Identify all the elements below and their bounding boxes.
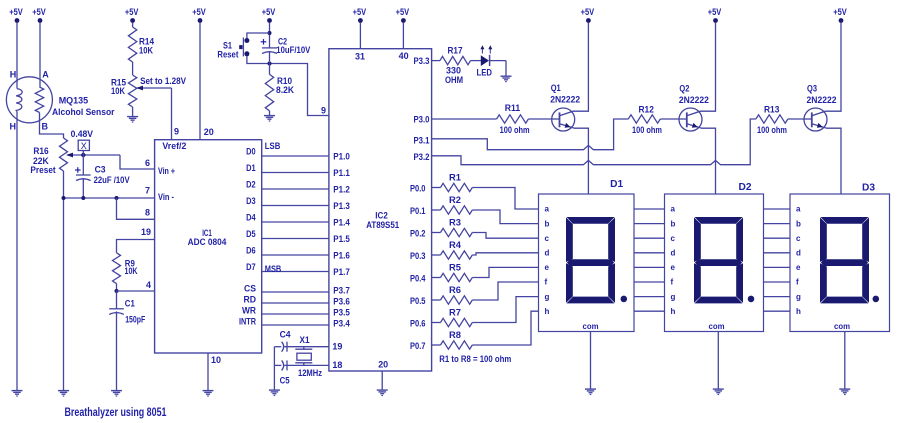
- svg-text:2N2222: 2N2222: [807, 95, 837, 105]
- svg-text:e: e: [796, 263, 801, 272]
- svg-text:R2: R2: [449, 195, 461, 205]
- svg-text:P1.4: P1.4: [333, 218, 350, 228]
- svg-text:a: a: [796, 205, 801, 214]
- svg-text:10uF/10V: 10uF/10V: [276, 45, 310, 55]
- svg-text:R5: R5: [449, 263, 461, 273]
- svg-text:X: X: [81, 141, 87, 151]
- svg-text:INTR: INTR: [239, 317, 256, 327]
- svg-text:D4: D4: [246, 213, 256, 223]
- svg-text:g: g: [671, 292, 676, 301]
- svg-text:Alcohol Sensor: Alcohol Sensor: [52, 107, 115, 117]
- svg-text:b: b: [671, 219, 676, 228]
- svg-text:H: H: [10, 122, 17, 132]
- svg-text:12MHz: 12MHz: [298, 368, 322, 378]
- svg-text:Vref/2: Vref/2: [162, 141, 186, 151]
- svg-text:8: 8: [145, 207, 150, 217]
- svg-text:P0.1: P0.1: [410, 206, 426, 216]
- svg-text:Q1: Q1: [551, 83, 561, 93]
- svg-text:f: f: [545, 278, 548, 287]
- svg-text:OHM: OHM: [445, 75, 463, 85]
- svg-text:Q2: Q2: [679, 84, 689, 94]
- svg-text:H: H: [10, 70, 16, 80]
- svg-text:Vin +: Vin +: [158, 166, 175, 176]
- svg-text:19: 19: [332, 342, 342, 352]
- svg-text:22uF /10V: 22uF /10V: [94, 175, 130, 185]
- svg-text:+5V: +5V: [833, 7, 847, 17]
- svg-text:10: 10: [211, 355, 221, 365]
- svg-text:P1.6: P1.6: [333, 251, 350, 261]
- svg-text:P3.7: P3.7: [333, 286, 350, 296]
- svg-text:P1.0: P1.0: [333, 152, 350, 162]
- svg-text:9: 9: [174, 127, 179, 137]
- svg-text:MSB: MSB: [265, 264, 282, 274]
- svg-text:b: b: [796, 219, 801, 228]
- svg-text:D1: D1: [246, 163, 256, 173]
- svg-text:ADC 0804: ADC 0804: [188, 237, 227, 247]
- svg-text:Breathalyzer using 8051: Breathalyzer using 8051: [65, 405, 167, 419]
- svg-text:D0: D0: [246, 147, 256, 157]
- svg-text:10K: 10K: [139, 46, 153, 56]
- svg-text:D3: D3: [862, 183, 875, 194]
- svg-text:P0.4: P0.4: [410, 274, 426, 284]
- svg-text:P3.1: P3.1: [414, 136, 430, 146]
- svg-text:g: g: [545, 292, 550, 301]
- svg-text:P3.2: P3.2: [414, 152, 430, 162]
- svg-text:h: h: [796, 307, 801, 316]
- svg-text:0.48V: 0.48V: [71, 129, 93, 139]
- svg-text:c: c: [545, 234, 550, 243]
- svg-text:g: g: [796, 292, 801, 301]
- svg-text:P0.3: P0.3: [410, 251, 426, 261]
- svg-text:D5: D5: [246, 229, 256, 239]
- svg-text:4: 4: [146, 280, 151, 290]
- svg-text:R17: R17: [448, 45, 463, 55]
- svg-text:40: 40: [399, 51, 409, 61]
- svg-text:P1.2: P1.2: [333, 185, 350, 195]
- svg-text:P3.3: P3.3: [414, 56, 430, 66]
- svg-text:P0.6: P0.6: [410, 319, 426, 329]
- svg-text:a: a: [545, 205, 550, 214]
- svg-text:a: a: [671, 205, 676, 214]
- svg-text:MQ135: MQ135: [59, 95, 88, 105]
- svg-text:X1: X1: [300, 335, 310, 345]
- svg-text:R12: R12: [639, 105, 654, 115]
- svg-text:c: c: [671, 234, 676, 243]
- svg-text:A: A: [42, 70, 49, 80]
- svg-text:R6: R6: [449, 285, 461, 295]
- svg-text:+5V: +5V: [708, 7, 722, 17]
- svg-text:R1 to R8 = 100 ohm: R1 to R8 = 100 ohm: [439, 354, 511, 364]
- svg-text:18: 18: [332, 360, 342, 370]
- svg-text:d: d: [796, 249, 801, 258]
- svg-text:2N2222: 2N2222: [679, 95, 709, 105]
- svg-text:C5: C5: [280, 376, 290, 386]
- svg-text:f: f: [796, 278, 799, 287]
- svg-text:P0.2: P0.2: [410, 229, 426, 239]
- svg-text:WR: WR: [242, 306, 256, 316]
- svg-text:P1.3: P1.3: [333, 201, 350, 211]
- svg-text:C1: C1: [125, 299, 135, 309]
- svg-text:P3.0: P3.0: [414, 115, 430, 125]
- svg-text:100 ohm: 100 ohm: [500, 125, 530, 135]
- svg-text:Q3: Q3: [807, 84, 817, 94]
- svg-text:R13: R13: [764, 105, 779, 115]
- svg-text:6: 6: [145, 158, 150, 168]
- svg-text:B: B: [42, 122, 49, 132]
- svg-text:150pF: 150pF: [125, 315, 145, 325]
- svg-text:+5V: +5V: [192, 7, 206, 17]
- svg-text:R3: R3: [449, 218, 461, 228]
- svg-text:Preset: Preset: [30, 165, 55, 175]
- svg-text:+5V: +5V: [353, 7, 367, 17]
- svg-text:R8: R8: [449, 330, 461, 340]
- svg-text:D7: D7: [246, 262, 256, 272]
- svg-text:+5V: +5V: [125, 7, 139, 17]
- svg-text:com: com: [709, 321, 725, 331]
- svg-text:P3.4: P3.4: [333, 319, 350, 329]
- svg-text:D3: D3: [246, 196, 256, 206]
- svg-text:LSB: LSB: [265, 141, 281, 151]
- svg-text:e: e: [671, 263, 676, 272]
- svg-text:h: h: [545, 307, 550, 316]
- svg-text:P0.5: P0.5: [410, 296, 426, 306]
- svg-text:+5V: +5V: [9, 7, 23, 17]
- svg-text:330: 330: [446, 65, 461, 75]
- svg-text:c: c: [796, 234, 801, 243]
- svg-text:LED: LED: [477, 68, 493, 78]
- svg-text:P3.5: P3.5: [333, 308, 350, 318]
- svg-text:P1.5: P1.5: [333, 234, 350, 244]
- svg-text:10K: 10K: [125, 266, 138, 276]
- svg-text:7: 7: [145, 186, 150, 196]
- svg-text:+5V: +5V: [396, 7, 410, 17]
- svg-text:P0.7: P0.7: [410, 341, 426, 351]
- svg-text:100 ohm: 100 ohm: [632, 125, 662, 135]
- svg-text:Vin -: Vin -: [158, 192, 174, 202]
- svg-text:RD: RD: [244, 295, 257, 305]
- svg-text:+5V: +5V: [262, 7, 276, 17]
- svg-text:D6: D6: [246, 246, 256, 256]
- svg-text:C4: C4: [280, 329, 291, 339]
- svg-text:com: com: [583, 321, 599, 331]
- svg-text:R1: R1: [449, 173, 461, 183]
- svg-text:R7: R7: [449, 308, 461, 318]
- svg-text:d: d: [545, 249, 550, 258]
- svg-text:P0.0: P0.0: [410, 184, 426, 194]
- svg-text:R16: R16: [33, 146, 48, 156]
- svg-text:CS: CS: [244, 284, 256, 294]
- svg-text:+5V: +5V: [581, 7, 595, 17]
- svg-text:P1.7: P1.7: [333, 267, 350, 277]
- svg-text:e: e: [545, 263, 550, 272]
- svg-text:com: com: [834, 321, 850, 331]
- svg-text:20: 20: [378, 360, 388, 370]
- svg-text:f: f: [671, 278, 674, 287]
- svg-text:C3: C3: [95, 165, 106, 175]
- svg-text:+5V: +5V: [32, 7, 46, 17]
- svg-text:2N2222: 2N2222: [550, 94, 580, 104]
- svg-text:D2: D2: [246, 180, 256, 190]
- svg-text:d: d: [671, 249, 676, 258]
- svg-text:20: 20: [204, 127, 214, 137]
- svg-text:P1.1: P1.1: [333, 168, 350, 178]
- svg-text:100 ohm: 100 ohm: [757, 125, 787, 135]
- svg-text:AT89S51: AT89S51: [366, 220, 399, 230]
- svg-text:9: 9: [321, 106, 326, 116]
- svg-text:Reset: Reset: [217, 49, 238, 59]
- svg-text:IC2: IC2: [375, 210, 388, 220]
- svg-text:8.2K: 8.2K: [276, 85, 294, 95]
- svg-text:R11: R11: [505, 103, 520, 113]
- svg-text:D1: D1: [610, 179, 623, 190]
- svg-text:P3.6: P3.6: [333, 297, 350, 307]
- svg-text:D2: D2: [739, 182, 752, 193]
- svg-text:h: h: [671, 307, 676, 316]
- svg-text:b: b: [545, 219, 550, 228]
- svg-text:R4: R4: [449, 240, 461, 250]
- svg-text:Set to 1.28V: Set to 1.28V: [140, 76, 186, 86]
- svg-text:10K: 10K: [111, 86, 125, 96]
- svg-text:31: 31: [355, 52, 365, 62]
- svg-text:19: 19: [141, 227, 151, 237]
